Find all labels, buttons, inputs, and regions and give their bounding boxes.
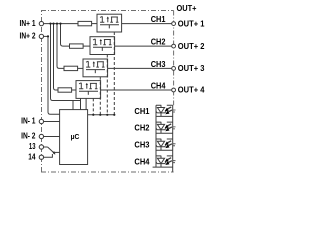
- svg-text:CH4: CH4: [151, 80, 166, 90]
- wire switch to uC: [54, 151, 60, 153]
- terminal IN-1: [39, 119, 43, 123]
- wire R4 to U4: [72, 89, 76, 91]
- monoflop block U3: [83, 59, 108, 77]
- svg-text:13: 13: [29, 141, 36, 151]
- svg-text:CH2: CH2: [151, 37, 166, 47]
- terminal OUT+1: [172, 22, 176, 26]
- svg-text:IN+ 1: IN+ 1: [20, 18, 36, 28]
- junction IN+2: [47, 35, 49, 37]
- resistor R1: [78, 21, 92, 25]
- wire CH4 out: [101, 89, 172, 91]
- svg-text:OUT+: OUT+: [177, 3, 197, 13]
- wire drop CH4: [54, 24, 59, 90]
- svg-text:CH1: CH1: [151, 14, 166, 24]
- svg-text:14: 14: [28, 151, 35, 161]
- monoflop block U2: [90, 37, 115, 55]
- module border top: [41, 10, 174, 12]
- wire IN+2: [43, 35, 48, 37]
- wire drop CH3: [57, 24, 64, 69]
- junction on IN+1 wire (CH3 drop): [56, 23, 58, 25]
- LED indicator CH4: [153, 156, 176, 167]
- terminal OUT+2: [172, 44, 176, 48]
- wire R2 to U2: [83, 45, 90, 47]
- resistor R3: [64, 66, 78, 70]
- wire CH2 out: [115, 45, 172, 47]
- module border right: [173, 11, 175, 106]
- junction status rail CH3: [99, 114, 101, 116]
- wire 13: [43, 146, 47, 148]
- svg-text:µC: µC: [71, 132, 80, 141]
- module border bottom: [41, 171, 174, 173]
- terminal IN-2: [39, 134, 43, 138]
- resistor R4: [58, 88, 72, 92]
- junction on IN+1 wire (CH2 drop): [59, 23, 61, 25]
- indicator rails: [156, 105, 173, 172]
- svg-text:IN- 1: IN- 1: [21, 116, 36, 126]
- svg-text:OUT+ 3: OUT+ 3: [178, 63, 205, 73]
- terminal 13: [39, 145, 43, 149]
- junction status rail CH4: [92, 114, 94, 116]
- svg-text:CH4: CH4: [134, 157, 149, 167]
- wire 14: [43, 154, 52, 157]
- dashed status link CH4: [92, 98, 94, 114]
- wire IN+2 drop to uC: [48, 36, 60, 114]
- wire R3 to U3: [78, 67, 83, 69]
- wire IN+1 row: [43, 23, 78, 25]
- wire R1 to U1: [92, 23, 97, 25]
- terminal OUT+4: [172, 88, 176, 92]
- junction status rail CH2: [106, 114, 108, 116]
- wire drop to uC from IN+1: [51, 24, 81, 110]
- svg-text:CH3: CH3: [151, 59, 166, 69]
- switch node dot: [53, 152, 55, 154]
- svg-text:CH1: CH1: [134, 106, 149, 116]
- wire drop CH2: [61, 24, 70, 46]
- wire bus U4 to uC: [81, 98, 87, 109]
- microcontroller U5: [60, 110, 88, 165]
- terminal IN+1: [39, 21, 43, 25]
- svg-text:OUT+ 2: OUT+ 2: [178, 41, 205, 51]
- junction on IN+1 wire (uC drop): [49, 23, 51, 25]
- terminal IN+2: [39, 34, 43, 38]
- LED indicator CH3: [156, 139, 176, 150]
- svg-text:CH2: CH2: [134, 123, 149, 133]
- wire IN-1: [43, 121, 60, 123]
- svg-text:OUT+ 4: OUT+ 4: [178, 85, 205, 95]
- wire IN-2: [43, 136, 60, 138]
- terminal 14: [39, 155, 43, 159]
- svg-text:CH3: CH3: [134, 140, 149, 150]
- monoflop block U4: [76, 81, 101, 99]
- wire CH3 out: [108, 67, 172, 69]
- svg-text:IN- 2: IN- 2: [21, 131, 36, 141]
- wire CH1 out: [122, 23, 172, 25]
- dashed status link CH2: [106, 55, 108, 115]
- dashed status link CH3: [99, 77, 101, 115]
- resistor R2: [70, 44, 84, 48]
- LED indicator CH2: [156, 122, 176, 133]
- module border left: [41, 11, 43, 173]
- terminal OUT+3: [172, 67, 176, 71]
- monoflop block U1: [97, 14, 122, 32]
- LED indicator CH1: [156, 105, 176, 116]
- svg-text:IN+ 2: IN+ 2: [20, 31, 36, 41]
- switch S1 blade: [48, 147, 56, 154]
- status rail to uC: [88, 114, 115, 116]
- svg-text:OUT+ 1: OUT+ 1: [178, 18, 205, 28]
- junction status rail CH1: [113, 114, 115, 116]
- junction on IN+1 wire (CH4 drop): [52, 23, 54, 25]
- dashed status link CH1: [113, 32, 115, 115]
